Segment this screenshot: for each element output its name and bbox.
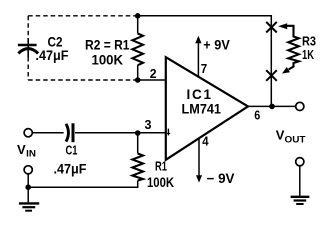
svg-text:100K: 100K: [147, 174, 174, 190]
svg-text:7: 7: [201, 61, 207, 76]
svg-text:V: V: [17, 142, 26, 157]
svg-text:1K: 1K: [302, 47, 314, 62]
svg-text:− 9V: − 9V: [207, 171, 235, 186]
svg-text:100K: 100K: [92, 52, 124, 68]
svg-text:V: V: [276, 127, 285, 142]
svg-text:+ 9V: + 9V: [203, 38, 230, 53]
svg-text:OUT: OUT: [285, 134, 306, 145]
svg-text:IC1: IC1: [187, 87, 212, 102]
svg-text:C1: C1: [66, 142, 78, 157]
svg-text:2: 2: [150, 66, 157, 81]
svg-text:.47μF: .47μF: [54, 161, 87, 176]
svg-text:IN: IN: [26, 148, 36, 159]
svg-text:R2 = R1: R2 = R1: [85, 37, 130, 53]
svg-text:3: 3: [145, 117, 152, 132]
svg-text:.47μF: .47μF: [36, 47, 69, 63]
svg-text:LM741: LM741: [182, 102, 222, 117]
svg-text:6: 6: [254, 109, 260, 123]
svg-text:4: 4: [202, 133, 209, 148]
svg-text:R1: R1: [155, 159, 167, 174]
